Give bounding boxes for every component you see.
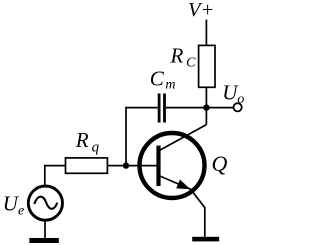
svg-text:Q: Q: [212, 151, 228, 176]
svg-text:V+: V+: [188, 0, 214, 21]
